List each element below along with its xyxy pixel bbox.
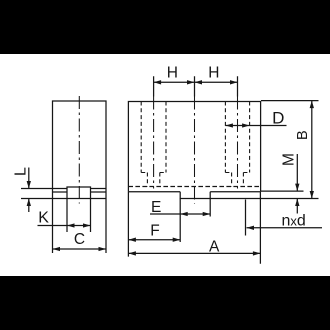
right view outline [128, 102, 260, 192]
svg-text:A: A [209, 238, 220, 255]
svg-text:H: H [167, 65, 178, 82]
block center line [194, 97, 196, 204]
nxd extension line [245, 200, 247, 236]
dim H extension lines [154, 76, 238, 96]
svg-text:H: H [208, 65, 219, 82]
dim C extension lines [53, 199, 107, 254]
svg-text:nxd: nxd [282, 213, 306, 230]
left view tab (tenon) [67, 187, 91, 199]
dim M extension line [261, 190, 304, 192]
dim D line [250, 125, 287, 127]
slot 2 center line [237, 97, 239, 189]
svg-text:F: F [150, 223, 159, 240]
right view tenon [180, 192, 210, 199]
dim B line [311, 101, 313, 199]
slot 2 outer dashed [225, 102, 249, 173]
svg-text:D: D [272, 109, 284, 128]
slot 2 inner dashed [232, 173, 244, 187]
dim K extension lines [67, 199, 91, 233]
dim H lines [154, 81, 195, 83]
slot 2 shoulders dashed [225, 172, 249, 174]
bottom transparent-black bar [0, 276, 330, 330]
left view step line upper [21, 188, 106, 190]
slot 1 center line [153, 97, 155, 189]
svg-text:B: B [295, 130, 311, 140]
slot 1 outer dashed [141, 102, 166, 173]
right view bottom face [128, 191, 260, 193]
left view bottom edge [21, 198, 106, 200]
slot 1 shoulders dashed [141, 172, 166, 174]
dim A line [128, 252, 260, 254]
dim A extension lines [128, 192, 260, 264]
svg-text:L: L [12, 167, 29, 176]
svg-text:C: C [74, 231, 85, 248]
long dashed line [128, 186, 260, 188]
left view step line mid [53, 191, 107, 193]
dim E line [180, 213, 210, 215]
svg-text:M: M [280, 153, 297, 166]
svg-text:E: E [151, 199, 161, 216]
dim B top extension [261, 100, 319, 102]
slot 1 inner dashed [147, 173, 159, 187]
top transparent-black bar [0, 0, 330, 54]
left view center line [78, 96, 80, 204]
dim M arrows [296, 154, 298, 191]
dim F line [128, 239, 180, 241]
left view outline [53, 101, 107, 199]
svg-text:K: K [38, 210, 49, 227]
dim B bottom extension [210, 198, 318, 200]
nxd leader [247, 227, 323, 229]
dim K arrows [38, 225, 68, 227]
content white band [0, 54, 330, 276]
dim E line tail [150, 213, 180, 215]
dim L arrows [28, 168, 30, 189]
dim C line [53, 248, 107, 250]
dim E extension lines [180, 199, 210, 243]
